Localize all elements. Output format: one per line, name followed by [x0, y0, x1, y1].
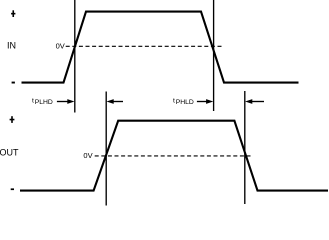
cursor line 4 (OUT falling crossing)	[244, 91, 246, 204]
svg-text:t: t	[32, 97, 34, 104]
arrow left into cursor 4	[245, 99, 252, 104]
svg-text:PHLD: PHLD	[176, 99, 194, 106]
arrow right into cursor 3	[197, 101, 207, 103]
svg-text:0V: 0V	[83, 151, 92, 160]
arrow left into cursor 2	[107, 99, 114, 104]
label - (IN low)	[12, 82, 15, 84]
cursor line 3 (IN falling crossing)	[213, 0, 215, 111]
svg-text:t: t	[173, 97, 175, 104]
svg-text:IN: IN	[7, 40, 16, 50]
IN waveform	[22, 12, 299, 83]
OUT 0V dashed line	[95, 155, 253, 157]
label + (OUT high)	[10, 116, 15, 123]
cursor line 1 (IN rising crossing)	[74, 0, 76, 113]
cursor line 2 (OUT rising crossing)	[105, 92, 107, 206]
label + (IN high)	[11, 10, 15, 17]
IN 0V dashed line	[66, 45, 224, 47]
OUT waveform	[20, 121, 328, 191]
svg-text:0V: 0V	[56, 41, 65, 50]
svg-text:PLHD: PLHD	[35, 99, 53, 106]
svg-text:OUT: OUT	[0, 148, 19, 158]
label - (OUT low)	[11, 188, 14, 190]
arrow right into cursor 1	[57, 101, 69, 103]
